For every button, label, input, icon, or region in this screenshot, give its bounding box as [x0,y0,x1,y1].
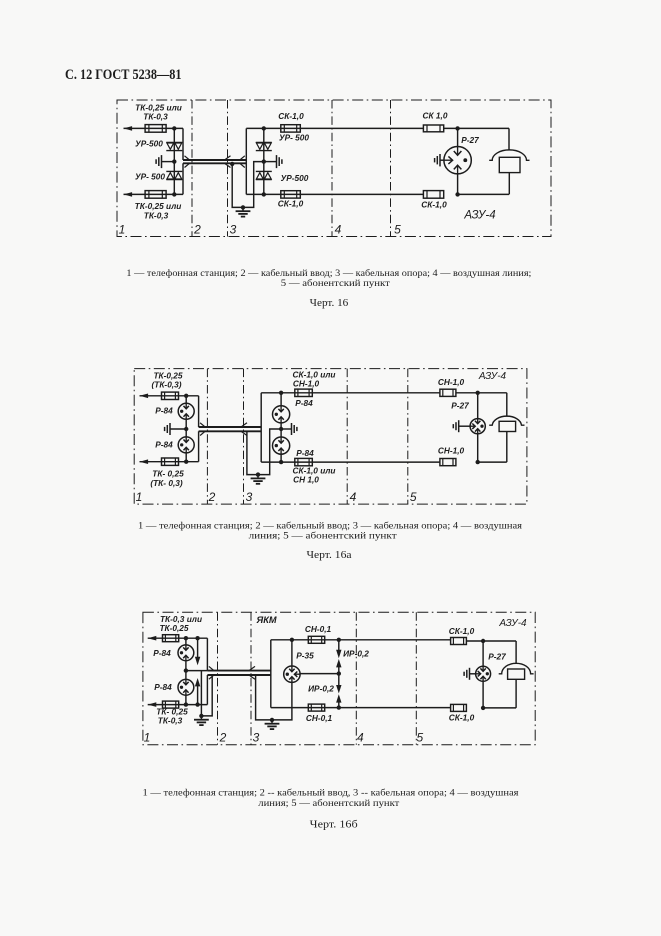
fuse ТК-0,3 top черт.16б [163,635,179,642]
wire to ground Р-27 черт.16а [459,425,470,427]
svg-text:АЗУ-4: АЗУ-4 [498,618,527,629]
svg-text:СН-1,0: СН-1,0 [438,377,465,387]
svg-text:(ТК-0,3): (ТК-0,3) [152,380,182,390]
arrester Р-84 upper черт.16а [178,403,194,419]
ground earth черт.16 [242,207,244,211]
divider section 5 черт.16б [415,612,417,745]
svg-text:4: 4 [335,223,342,237]
cable черт.16 [183,159,246,161]
junction bottom station черт.16а [184,460,188,464]
svg-text:СК-1,0: СК-1,0 [421,200,447,210]
svg-text:5: 5 [417,731,424,745]
arrester УР-500 lower pole черт.16 [256,170,272,172]
wire top station черт.16б [148,637,208,639]
junction top station черт.16 [172,126,176,130]
arrester Р-27 черт.16 [444,147,471,174]
wire top subscriber черт.16б [466,640,516,642]
svg-text:УР-500: УР-500 [135,139,163,149]
wire out arrester черт.16а [477,434,479,462]
divider section 3 черт.16 [227,100,229,237]
wire station vertical upper черт.16б [185,638,187,645]
svg-text:АЗУ-4: АЗУ-4 [463,210,495,222]
fuse ТК-0,25 top черт.16 [145,125,166,133]
junction earth черт.16б [199,714,203,718]
svg-text:4: 4 [350,490,357,504]
wire to ground mid pole черт.16 [264,161,277,163]
svg-text:АЗУ-4: АЗУ-4 [478,371,507,382]
junction mid pole черт.16 [262,159,266,163]
wire telephone drop bottom черт.16а [506,432,508,463]
wire sheath loop черт.16 [232,162,264,208]
svg-text:Р-84: Р-84 [296,448,314,458]
svg-text:ЯКМ: ЯКМ [256,615,277,625]
junction earth черт.16 [241,205,245,209]
schematic Черт.16а frame [134,369,527,505]
wire telephone drop top черт.16б [515,641,517,664]
svg-text:УР- 500: УР- 500 [135,172,165,182]
wire into Р-35 черт.16б [291,640,293,666]
fuse СН-1,0 top subscriber черт.16а [440,389,456,396]
divider section 3 черт.16б [250,612,252,745]
fuse ТК-0,25 top черт.16а [162,392,179,399]
wire pole vertical черт.16 [245,128,247,194]
fuse СК-1,0 top subscriber черт.16б [451,638,467,645]
wire to ground mid station черт.16 [162,161,175,163]
svg-text:Р-84: Р-84 [155,440,173,450]
svg-text:1 — телефонная станция; 2 -: 1 — телефонная станция; 2 -- кабельный в… [143,788,519,798]
junction mid station черт.16 [172,159,176,163]
fuse СН-1,0 bottom subscriber черт.16а [440,459,456,466]
svg-text:1 — телефонная станция; 2 — к: 1 — телефонная станция; 2 — кабельный вв… [138,521,522,531]
wire top pole черт.16б [271,639,451,641]
ground earth черт.16а [257,475,259,479]
svg-text:Р-84: Р-84 [153,648,171,658]
svg-text:ТК-0,3: ТК-0,3 [144,211,169,221]
svg-text:ТК-0,3: ТК-0,3 [143,112,168,122]
svg-text:Черт. 16: Черт. 16 [310,298,349,309]
svg-text:СК-1,0: СК-1,0 [449,626,475,636]
arrow line terminal top черт.16б [148,636,157,641]
fuse СК-1,0 bottom subscriber черт.16б [451,704,467,711]
svg-text:4: 4 [357,731,364,745]
wire bottom subscriber черт.16б [483,707,516,709]
fuse СН-0,1 top черт.16б [308,636,324,643]
arrow line terminal top черт.16а [140,394,149,399]
arrester УР-500 upper черт.16 [166,141,182,143]
divider section 2 черт.16б [217,612,219,745]
svg-text:ТК-0,3: ТК-0,3 [158,716,183,726]
svg-text:(ТК- 0,3): (ТК- 0,3) [150,478,183,488]
junction Р-35 top черт.16б [290,638,294,642]
wire into arrester черт.16а [477,393,479,419]
divider section 2 черт.16а [206,369,208,505]
divider section 2 черт.16 [191,100,193,237]
svg-text:ТК-0,25 или: ТК-0,25 или [135,201,182,211]
wire arrester column lower черт.16а [280,454,282,462]
svg-text:3: 3 [246,490,253,504]
wire top subscriber черт.16а [456,392,507,394]
fuse СН-0,1 bottom черт.16б [308,704,324,711]
junction spark bottom черт.16б [337,705,341,709]
ground chassis station черт.16 [161,155,163,168]
wire top station черт.16а [140,395,199,397]
wire bottom pole черт.16 [246,193,423,195]
surge arrow down черт.16б [197,638,199,658]
wire bottom station черт.16 [124,193,184,195]
svg-text:2: 2 [219,731,227,745]
wire telephone drop top черт.16 [508,128,510,150]
wire to ground mid pole черт.16а [281,428,291,430]
fuse СК-1,0 top pole черт.16 [281,125,301,132]
junction bottom pole черт.16а [279,460,283,464]
svg-text:Р-84: Р-84 [154,682,172,692]
junction mid station черт.16б [184,668,188,672]
junction mid station черт.16а [184,427,188,431]
wire station vertical lower черт.16б [185,695,187,704]
svg-text:УР- 500: УР- 500 [279,133,309,143]
junction top subscriber черт.16 [455,126,459,130]
divider section 3 черт.16а [243,369,245,505]
svg-text:СК 1,0: СК 1,0 [423,111,448,121]
svg-text:ИР-0,2: ИР-0,2 [343,649,369,659]
wire sheath loop черт.16б [256,675,292,720]
junction earth черт.16а [256,472,260,476]
junction top station черт.16а [184,394,188,398]
junction top arrow column черт.16б [195,636,199,640]
ground earth черт.16б [200,716,202,720]
cable черт.16а [199,426,262,428]
ground earth pole черт.16б [271,720,273,724]
ground chassis subscriber черт.16а [458,420,460,432]
svg-text:линия; 5 — абонентский пункт: линия; 5 — абонентский пункт [249,530,397,540]
svg-text:СК-1,0: СК-1,0 [278,111,304,121]
junction top pole черт.16 [262,126,266,130]
wire earth loop черт.16б [201,671,212,716]
arrester Р-84 lower черт.16б [178,679,194,695]
fuse ТК-0,25 bottom черт.16б [163,701,179,708]
junction top pole черт.16а [279,391,283,395]
wire into arrester черт.16б [482,641,484,666]
wire out arrester черт.16б [482,681,484,708]
wire arrester column upper черт.16а [280,393,282,406]
wire bottom subscriber черт.16а [478,461,507,463]
fuse СК-1,0 bottom subscriber черт.16 [423,191,443,199]
schematic Черт.16б frame [143,612,535,745]
junction bottom station черт.16б [184,702,188,706]
svg-text:1: 1 [119,223,126,237]
arrester УР-500 lower черт.16 [166,170,182,172]
wire station vertical upper черт.16а [185,396,187,404]
fuse СК-1,0 top pole черт.16а [295,389,313,396]
arrester Р-27 черт.16б [476,666,491,681]
svg-text:ТК-0,25: ТК-0,25 [159,623,188,633]
ground chassis subscriber черт.16 [439,154,441,166]
cable черт.16б [207,670,270,672]
telephone set черт.16а [489,416,524,425]
wire to ground Р-27 черт.16б [470,673,476,675]
arrester Р-84 upper pole черт.16а [273,406,290,423]
wire bottom station черт.16а [140,461,199,463]
divider section 5 черт.16 [390,100,392,237]
arrester Р-84 lower pole черт.16а [273,437,290,454]
junction bottom subscriber черт.16б [481,706,485,710]
svg-text:3: 3 [230,223,237,237]
svg-text:3: 3 [253,731,260,745]
arrow line terminal bottom-left черт.16 [124,192,133,197]
wire Р-35 to spark column черт.16б [300,673,339,675]
arrester Р-35 черт.16б [284,666,300,682]
svg-text:5: 5 [394,223,401,237]
wire telephone drop top черт.16а [506,393,508,416]
junction bottom subscriber черт.16 [455,192,459,196]
junction mid pole черт.16а [279,427,283,431]
divider section 4 черт.16 [331,100,333,237]
wire bottom pole черт.16а [261,461,440,463]
divider section 4 черт.16б [355,612,357,745]
ground chassis subscriber черт.16б [469,668,471,680]
wire top pole черт.16 [246,127,423,129]
fuse ТК-0,25 bottom черт.16а [162,458,179,465]
svg-text:1 — телефонная станция; 2 — к: 1 — телефонная станция; 2 — кабельный вв… [126,268,531,278]
wire station vertical черт.16 [173,128,175,194]
arrow line terminal bottom черт.16а [140,459,149,464]
svg-text:1: 1 [136,490,143,504]
arrow line terminal top-left черт.16 [124,126,133,131]
ground chassis pole черт.16а [291,423,293,435]
wire into arrester top черт.16 [457,128,459,146]
svg-text:СН-1,0: СН-1,0 [293,379,320,389]
junction earth pole черт.16б [270,718,274,722]
wire stub to cable top черт.16а [198,396,200,427]
svg-text:УР-500: УР-500 [281,173,309,183]
wire pole vertical черт.16а [260,393,262,462]
wire telephone drop bottom черт.16б [515,679,517,708]
svg-text:Р-35: Р-35 [296,651,314,661]
fuse СК-1,0 bottom pole черт.16 [281,191,301,198]
svg-text:Черт. 16б: Черт. 16б [310,819,358,830]
svg-text:ИР-0,2: ИР-0,2 [308,684,334,694]
svg-text:ТК- 0,25: ТК- 0,25 [152,469,184,479]
svg-text:линия; 5 — абонентский пун: линия; 5 — абонентский пункт [258,798,399,808]
svg-text:СН-0,1: СН-0,1 [306,713,333,723]
schematic Черт.16 frame [117,100,551,237]
svg-text:Р-27: Р-27 [461,135,479,145]
junction spark top черт.16б [337,638,341,642]
svg-text:2: 2 [208,490,216,504]
wire telephone drop bottom черт.16 [508,173,510,195]
divider section 4 черт.16а [346,369,348,505]
svg-text:СН 1,0: СН 1,0 [293,475,319,485]
fuse ТК-0,25 bottom черт.16 [145,191,166,199]
surge arrow up черт.16б [197,685,199,704]
wire out arrester bottom черт.16 [457,174,459,195]
ground chassis station черт.16а [169,423,171,435]
junction spark mid черт.16б [337,671,341,675]
wire between arresters черт.16б [185,661,187,680]
ground chassis pole черт.16 [276,155,278,168]
svg-text:С. 12 ГОСТ 5238—81: С. 12 ГОСТ 5238—81 [65,67,182,83]
wire station vertical lower черт.16а [185,453,187,462]
junction top station черт.16б [184,636,188,640]
junction bottom arrow column черт.16б [195,702,199,706]
wire top station черт.16 [124,127,184,129]
arrester Р-84 lower черт.16а [178,437,194,453]
fuse СК-1,0 bottom pole черт.16а [295,458,313,465]
wire to ground Р-27 черт.16 [440,159,444,161]
wire arrester column pole черт.16 [263,128,265,194]
junction top subscriber черт.16б [481,639,485,643]
wire stub to cable bottom черт.16 [182,163,184,194]
spark gap ИР-0,2 upper черт.16б [338,640,340,651]
wire stub to cable bottom черт.16а [198,431,200,461]
svg-text:Р-84: Р-84 [155,406,173,416]
svg-text:Р-27: Р-27 [451,401,469,411]
svg-text:СН-0,1: СН-0,1 [305,624,332,634]
wire stub to cable top черт.16б [206,638,208,670]
telephone set черт.16б [499,663,534,674]
svg-text:1: 1 [144,731,151,745]
svg-text:5: 5 [410,490,417,504]
wire to ground mid черт.16а [170,428,186,430]
wire between arresters черт.16а [185,419,187,437]
wire top subscriber черт.16 [444,127,509,129]
svg-text:5 — абонентский пункт: 5 — абонентский пункт [281,278,390,288]
divider section 5 черт.16а [407,369,409,505]
arrester Р-84 upper черт.16б [178,645,194,661]
wire between arresters pole черт.16а [280,423,282,437]
arrow line terminal bottom черт.16б [148,702,157,707]
svg-text:Р-27: Р-27 [488,652,506,662]
junction bottom pole черт.16 [262,192,266,196]
wire bottom pole черт.16б [271,707,451,709]
spark gap ИР-0,2 lower черт.16б [338,674,340,687]
wire bottom subscriber черт.16 [458,193,509,195]
junction bottom station черт.16 [172,192,176,196]
wire stub to cable bottom черт.16б [206,675,208,705]
wire stub to cable top черт.16 [182,128,184,160]
telephone set черт.16 [489,150,529,160]
wire sheath loop черт.16а [247,429,281,475]
arrester УР-500 upper pole черт.16 [256,141,272,143]
junction cable sheath черт.16 [230,162,234,166]
svg-text:СК-1,0: СК-1,0 [449,713,475,723]
svg-text:2: 2 [193,223,201,237]
wire mid to earth column черт.16б [186,670,208,672]
svg-text:Черт. 16а: Черт. 16а [307,550,352,561]
fuse СК 1,0 top subscriber черт.16 [423,125,443,132]
junction bottom subscriber черт.16а [476,460,480,464]
wire bottom station черт.16б [148,704,208,706]
arrester Р-27 черт.16а [470,419,485,434]
junction top subscriber черт.16а [476,391,480,395]
wire top pole черт.16а [261,392,440,394]
svg-text:СН-1,0: СН-1,0 [438,446,465,456]
svg-text:Р-84: Р-84 [295,398,313,408]
wire pole vertical черт.16б [270,640,272,708]
svg-text:СК-1,0: СК-1,0 [278,199,304,209]
